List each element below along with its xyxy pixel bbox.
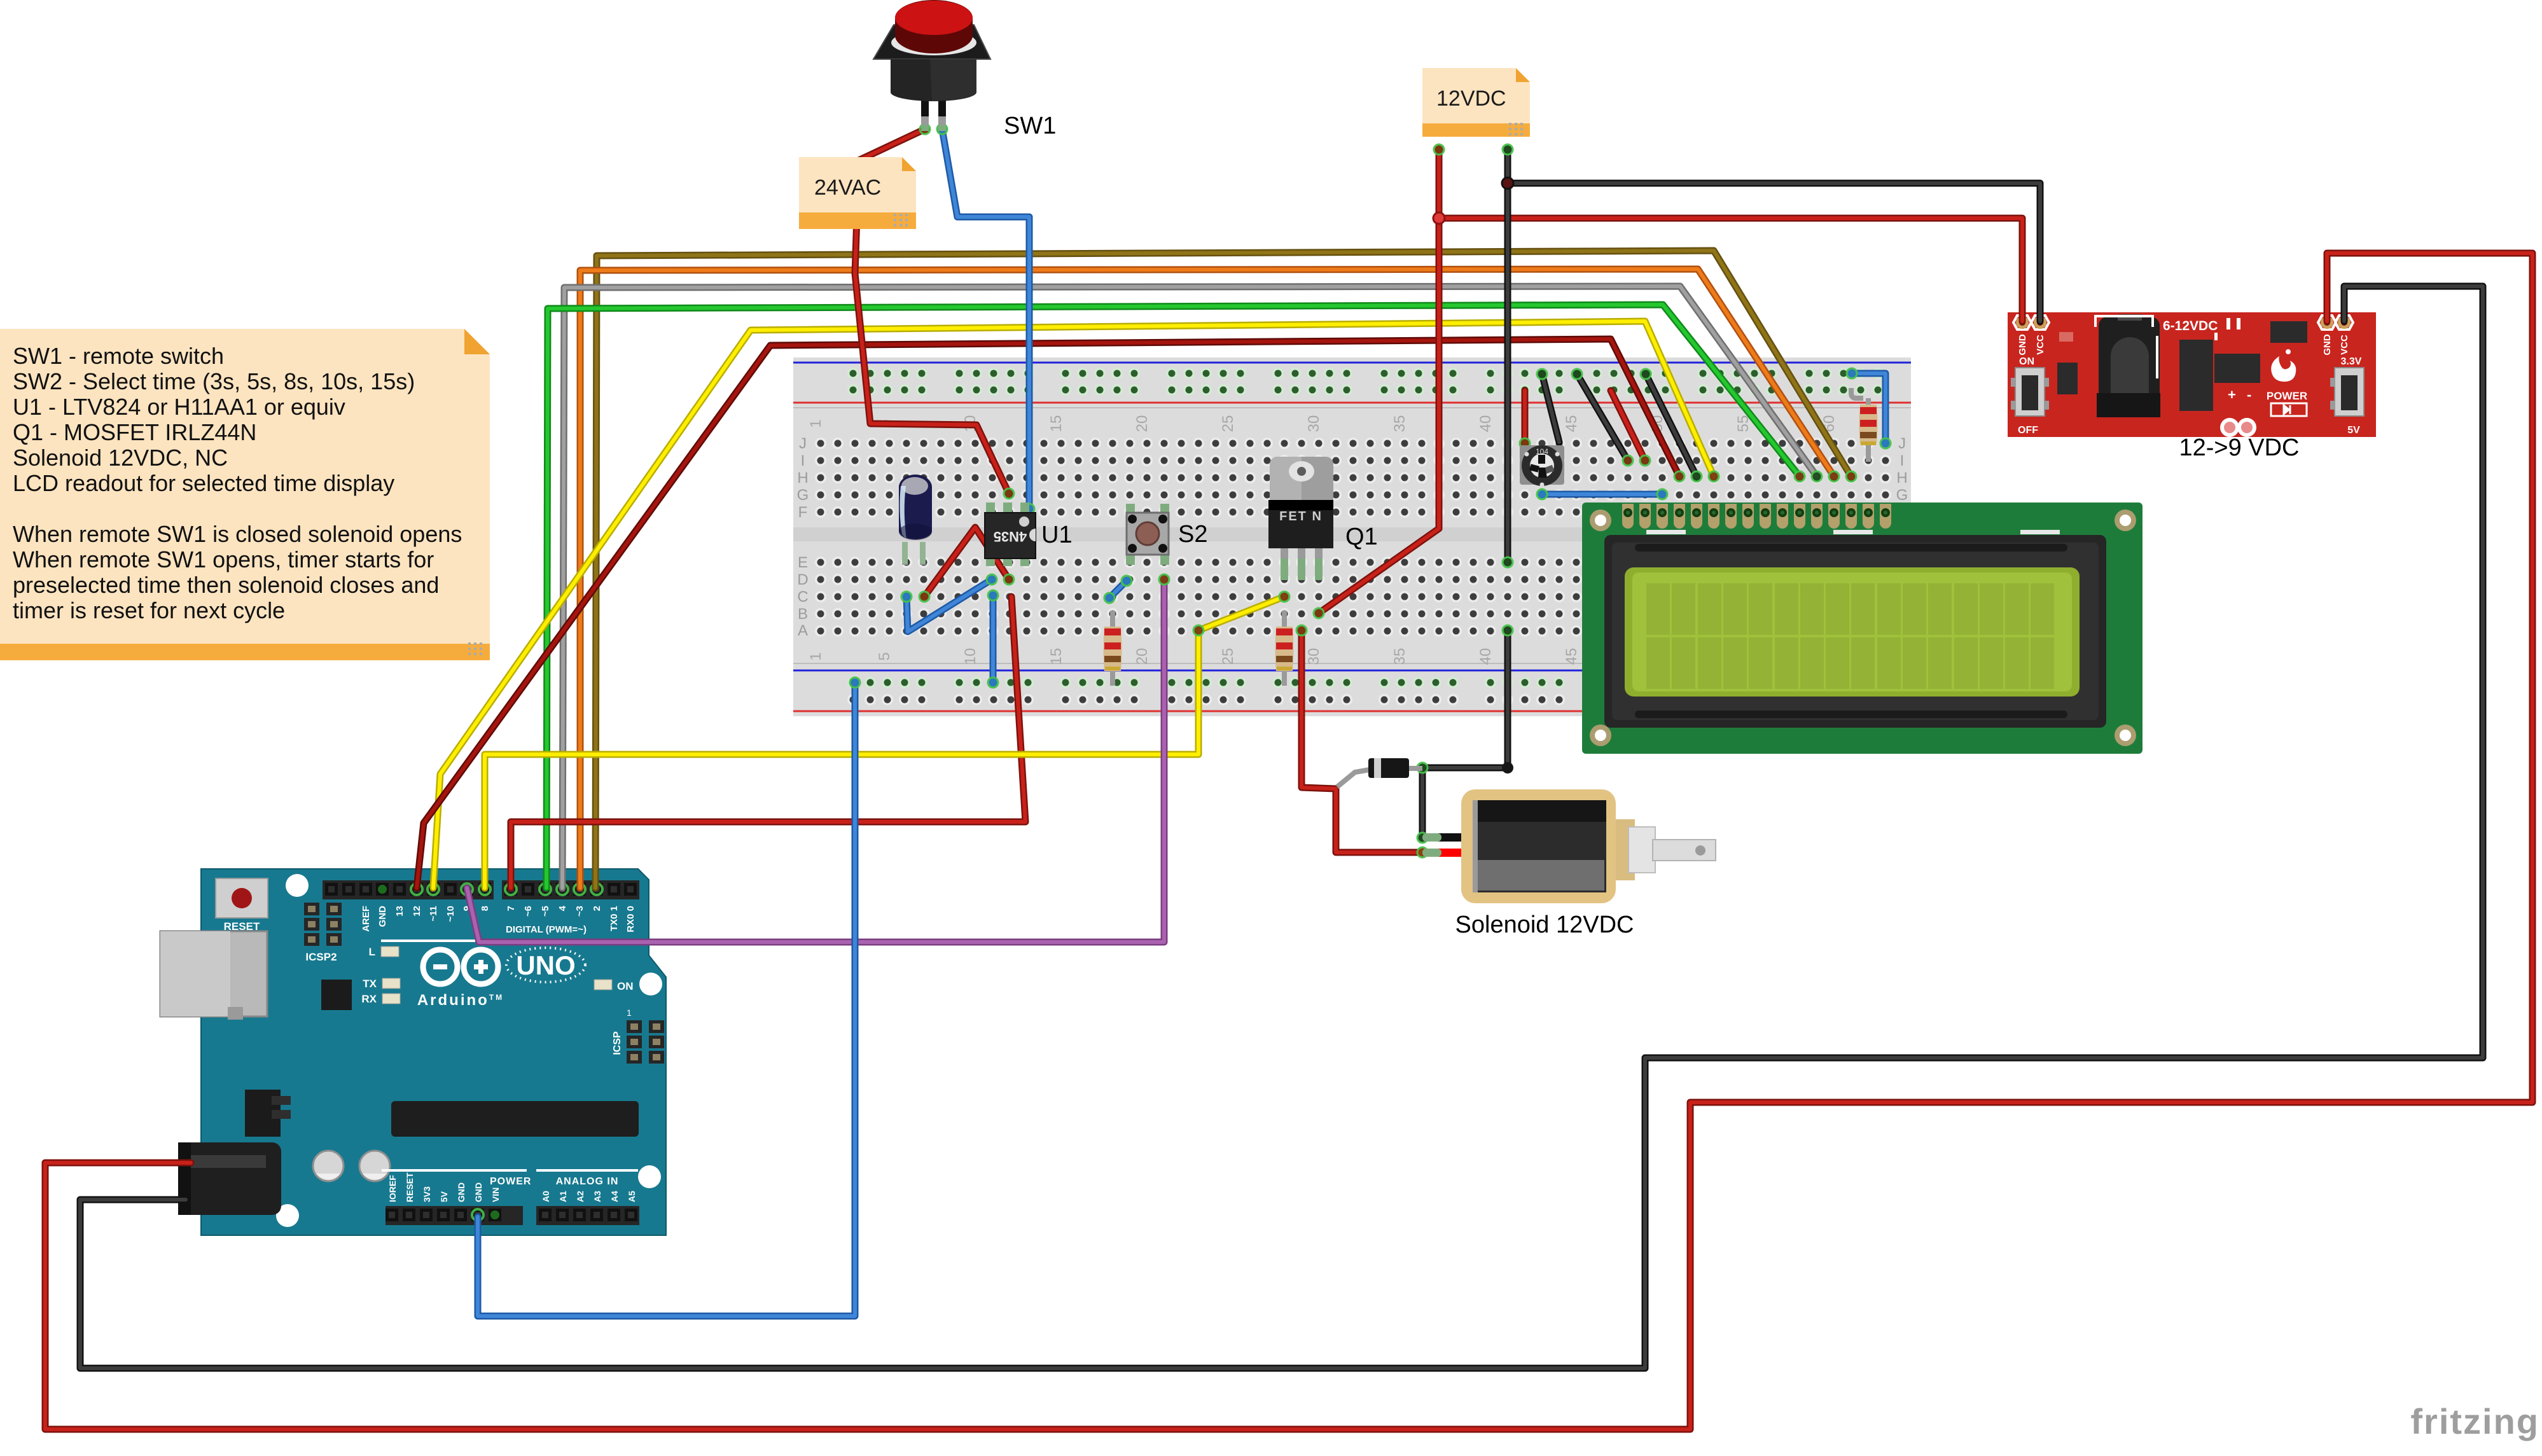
wire purple D9	[467, 579, 1164, 942]
transistor Q1	[1268, 457, 1333, 580]
svg-text:GND: GND	[473, 1182, 483, 1202]
svg-text:S2: S2	[1178, 521, 1207, 548]
wire red jumper C7	[924, 527, 1009, 597]
svg-text:A4: A4	[609, 1191, 620, 1202]
diode D1	[1337, 758, 1422, 787]
wire yellow D8	[485, 597, 1284, 888]
LCD display LCD1	[1582, 503, 2143, 754]
svg-text:~10: ~10	[445, 906, 456, 922]
svg-text:SW2 - Select time (3s, 5s, 8s,: SW2 - Select time (3s, 5s, 8s, 10s, 15s)	[13, 368, 415, 394]
svg-text:30: 30	[1305, 415, 1323, 433]
svg-text:B: B	[798, 606, 808, 623]
wire blue jumper J63	[1852, 373, 1886, 443]
svg-text:+: +	[2228, 387, 2236, 403]
svg-text:Q1: Q1	[1345, 523, 1378, 550]
svg-text:25: 25	[1219, 648, 1237, 665]
svg-text:13: 13	[394, 906, 405, 917]
pushbutton S2	[1126, 504, 1169, 565]
svg-text:H: H	[797, 469, 808, 487]
svg-text:GND: GND	[2322, 334, 2333, 356]
wire blue jumper C6	[906, 579, 992, 632]
wire blue jumper C18	[1109, 581, 1127, 598]
wire black jumper rail1	[1577, 374, 1628, 461]
svg-text:20: 20	[1134, 415, 1151, 433]
svg-text:A3: A3	[592, 1191, 602, 1202]
svg-text:20: 20	[1134, 648, 1151, 665]
svg-text:POWER: POWER	[490, 1176, 531, 1187]
wire blue SW1	[942, 129, 1029, 509]
svg-text:LCD readout for selected time: LCD readout for selected time display	[13, 470, 394, 496]
svg-text:preselected time then solenoid: preselected time then solenoid closes an…	[13, 572, 439, 598]
wire orange D3	[580, 269, 1834, 888]
svg-text:fritzing: fritzing	[2410, 1401, 2539, 1441]
svg-text:When remote SW1 opens, timer s: When remote SW1 opens, timer starts for	[13, 546, 434, 572]
junction red 12VDC/regulator	[1433, 212, 1445, 224]
svg-text:TX: TX	[363, 978, 377, 990]
capacitor C1	[899, 475, 932, 565]
solenoid terminal stubs	[1422, 833, 1464, 857]
voltage regulator board U2 (12->9 VDC)	[2008, 312, 2376, 437]
wire red D7	[511, 597, 1025, 888]
svg-text:12VDC: 12VDC	[1436, 87, 1506, 111]
svg-text:1: 1	[807, 652, 824, 660]
svg-text:C: C	[797, 588, 808, 606]
svg-text:8: 8	[480, 906, 490, 911]
junction black diode/solenoid	[1502, 762, 1513, 773]
svg-text:45: 45	[1563, 415, 1580, 433]
wire blue jumper G43-G50	[1542, 491, 1662, 498]
svg-text:VCC: VCC	[2035, 335, 2046, 355]
svg-text:D: D	[797, 571, 808, 588]
svg-text:SW1: SW1	[1004, 113, 1056, 139]
wire black 12VDC	[1504, 149, 1511, 562]
wire black jumper rail3	[1646, 374, 1697, 476]
svg-text:A1: A1	[558, 1191, 568, 1202]
svg-text:UNO: UNO	[516, 950, 575, 980]
wire black jumper trimpot	[1542, 374, 1559, 442]
svg-text:RX: RX	[361, 993, 377, 1005]
svg-text:6-12VDC: 6-12VDC	[2163, 319, 2218, 333]
note 12VDC	[1422, 68, 1530, 137]
svg-text:2: 2	[592, 906, 602, 911]
wire red jumper rail2	[1611, 391, 1645, 461]
wire blue GND	[478, 683, 855, 1316]
svg-text:40: 40	[1477, 648, 1494, 665]
svg-text:L: L	[369, 946, 375, 958]
breadboard	[793, 357, 1911, 716]
svg-text:TX0 1: TX0 1	[609, 906, 620, 931]
junction black 12VDC/regulator	[1502, 177, 1513, 189]
wire gray D4	[562, 286, 1817, 888]
wire red solenoid	[1302, 630, 1464, 852]
svg-text:25: 25	[1219, 415, 1237, 433]
svg-text:30: 30	[1305, 648, 1323, 665]
svg-text:A: A	[798, 622, 808, 639]
svg-text:GND: GND	[2017, 334, 2028, 356]
svg-text:3.3V: 3.3V	[2341, 356, 2362, 367]
svg-text:ICSP: ICSP	[612, 1031, 623, 1055]
svg-text:Solenoid 12VDC: Solenoid 12VDC	[1455, 912, 1634, 938]
svg-text:SW1 - remote switch: SW1 - remote switch	[13, 343, 224, 369]
solenoid 12VDC	[1461, 789, 1716, 903]
pushbutton SW1	[873, 0, 990, 131]
wire black to regulator VCC	[1508, 183, 2040, 321]
svg-text:IOREF: IOREF	[387, 1175, 398, 1202]
svg-text:GND: GND	[377, 906, 388, 927]
svg-text:~6: ~6	[523, 906, 534, 917]
svg-text:A2: A2	[575, 1191, 585, 1202]
svg-text:RESET: RESET	[224, 920, 260, 933]
wire red 12VDC	[1319, 149, 1439, 613]
svg-text:15: 15	[1048, 648, 1065, 665]
svg-text:7: 7	[506, 906, 517, 911]
svg-text:I: I	[1900, 452, 1905, 469]
svg-text:Q1 - MOSFET IRLZ44N: Q1 - MOSFET IRLZ44N	[13, 419, 256, 445]
svg-text:F: F	[798, 504, 808, 521]
svg-text:A5: A5	[627, 1191, 637, 1202]
svg-text:OFF: OFF	[2018, 425, 2038, 436]
wire olive D2	[595, 251, 1851, 888]
svg-text:timer is reset for next cycle: timer is reset for next cycle	[13, 597, 285, 623]
svg-text:12->9 VDC: 12->9 VDC	[2179, 434, 2299, 461]
wire blue jumper C11	[990, 595, 997, 683]
svg-text:ANALOG IN: ANALOG IN	[556, 1176, 619, 1187]
svg-text:U1: U1	[1041, 522, 1073, 548]
resistor R2	[1275, 611, 1294, 686]
svg-text:When remote SW1 is closed sole: When remote SW1 is closed solenoid opens	[13, 521, 462, 547]
wire red 24VAC	[855, 129, 1009, 494]
svg-text:4: 4	[557, 905, 568, 911]
svg-text:J: J	[799, 435, 807, 452]
svg-text:~3: ~3	[574, 906, 585, 917]
svg-text:45: 45	[1563, 648, 1580, 665]
note annotation text block	[0, 329, 490, 660]
note 24VAC	[799, 157, 916, 229]
Arduino Uno board A1	[160, 869, 666, 1235]
svg-text:POWER: POWER	[2267, 390, 2307, 402]
svg-text:DIGITAL (PWM=~): DIGITAL (PWM=~)	[506, 924, 587, 935]
wire green D5	[546, 305, 1800, 888]
svg-text:GND: GND	[456, 1182, 466, 1202]
svg-text:5V: 5V	[2347, 425, 2360, 436]
resistor R3	[1851, 388, 1878, 462]
svg-text:G: G	[797, 487, 809, 504]
wire end dots	[850, 124, 1891, 857]
wire black supply loop	[80, 286, 2483, 1368]
svg-text:~5: ~5	[540, 906, 551, 917]
resistor R1	[1104, 611, 1122, 686]
svg-text:ICSP2: ICSP2	[305, 951, 337, 963]
svg-text:ON: ON	[617, 980, 634, 992]
svg-text:H: H	[1896, 469, 1907, 487]
svg-text:1: 1	[627, 1008, 632, 1018]
svg-text:Solenoid 12VDC, NC: Solenoid 12VDC, NC	[13, 445, 228, 471]
svg-text:15: 15	[1048, 415, 1065, 433]
svg-text:I: I	[801, 452, 805, 469]
svg-text:4N35: 4N35	[994, 529, 1027, 544]
svg-text:5: 5	[876, 652, 893, 660]
svg-text:40: 40	[1477, 415, 1494, 433]
svg-text:U1 - LTV824 or H11AA1 or equiv: U1 - LTV824 or H11AA1 or equiv	[13, 394, 345, 420]
op-amp/optocoupler U1	[985, 503, 1036, 566]
svg-text:RX0 0: RX0 0	[625, 906, 636, 933]
wire red to regulator GND	[1439, 218, 2022, 321]
wire black solenoid	[1422, 630, 1508, 838]
svg-text:3V3: 3V3	[422, 1186, 432, 1202]
svg-text:104: 104	[1536, 447, 1548, 456]
svg-text:12: 12	[412, 906, 422, 917]
svg-text:ON: ON	[2019, 356, 2034, 367]
svg-text:35: 35	[1391, 648, 1408, 665]
trimpot RV1	[1520, 445, 1564, 487]
svg-text:1: 1	[807, 419, 824, 427]
svg-text:E: E	[798, 554, 808, 571]
svg-text:-: -	[2247, 387, 2251, 403]
wire red jumper trimpot	[1522, 391, 1529, 443]
svg-text:35: 35	[1391, 415, 1408, 433]
svg-text:G: G	[1896, 487, 1908, 504]
svg-text:~11: ~11	[428, 906, 439, 922]
svg-text:AREF: AREF	[361, 906, 372, 932]
wire red D12	[417, 339, 1679, 888]
svg-text:RESET: RESET	[405, 1172, 415, 1202]
svg-text:VCC: VCC	[2339, 335, 2350, 355]
svg-text:A0: A0	[541, 1191, 551, 1202]
svg-text:5V: 5V	[439, 1191, 449, 1202]
wire red supply loop	[45, 253, 2532, 1429]
svg-text:J: J	[1898, 435, 1906, 452]
svg-text:FET N: FET N	[1279, 510, 1323, 523]
purple wire gray tip	[1160, 574, 1169, 583]
svg-text:VIN: VIN	[490, 1188, 501, 1202]
svg-text:24VAC: 24VAC	[814, 176, 881, 200]
svg-text:10: 10	[962, 648, 979, 665]
wire yellow D11	[433, 321, 1714, 888]
